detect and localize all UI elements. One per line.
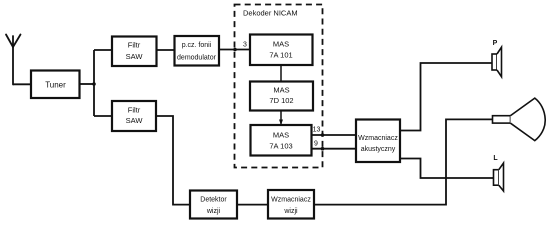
detector box Detektor wizji bbox=[190, 191, 237, 219]
svg-text:9: 9 bbox=[314, 141, 318, 148]
svg-text:3: 3 bbox=[243, 42, 247, 49]
wire Tuner to trunk bbox=[80, 83, 95, 85]
svg-text:13: 13 bbox=[313, 127, 321, 134]
wire antenna to Tuner bbox=[13, 83, 31, 85]
demodulator box p.cz. fonii bbox=[175, 36, 220, 66]
CRT kineskop bbox=[493, 98, 546, 141]
wire amplifier to speaker L bbox=[400, 159, 494, 179]
junction dot D bbox=[321, 147, 325, 151]
IC U1 MAS 7A 101 bbox=[250, 35, 313, 66]
svg-text:Detektor: Detektor bbox=[200, 197, 227, 204]
svg-text:Filtr: Filtr bbox=[128, 105, 141, 114]
speaker P bbox=[492, 47, 502, 76]
svg-text:7A 101: 7A 101 bbox=[269, 51, 292, 60]
svg-text:demodulator: demodulator bbox=[177, 54, 217, 61]
antenna bbox=[6, 35, 21, 85]
wire trunk vertical bbox=[93, 50, 95, 116]
svg-text:L: L bbox=[493, 155, 498, 162]
svg-text:akustyczny: akustyczny bbox=[361, 146, 396, 153]
amplifier box Wzmacniacz akustyczny bbox=[356, 120, 400, 163]
wire U1 to U2 bbox=[280, 65, 282, 82]
wire amplifier to speaker P bbox=[400, 63, 492, 131]
svg-text:SAW: SAW bbox=[126, 52, 144, 61]
svg-text:Tuner: Tuner bbox=[45, 81, 66, 90]
svg-text:wizji: wizji bbox=[206, 208, 221, 215]
svg-text:MAS: MAS bbox=[273, 85, 289, 94]
tuner box bbox=[31, 71, 80, 99]
wire U3 pin 9 to amplifier bbox=[312, 148, 357, 150]
svg-text:p.cz. fonii: p.cz. fonii bbox=[182, 42, 212, 49]
svg-text:Dekoder NICAM: Dekoder NICAM bbox=[243, 9, 298, 18]
wire U3 pin 13 to amplifier bbox=[312, 134, 357, 136]
junction dot A bbox=[92, 82, 96, 86]
wire Detektor wizji to Wzmacniacz wizji bbox=[237, 204, 268, 206]
svg-text:Wzmacniacz: Wzmacniacz bbox=[271, 197, 311, 204]
junction dot B bbox=[233, 48, 237, 52]
wire Wzmacniacz wizji to CRT bbox=[314, 119, 493, 204]
filter box Filtr SAW top bbox=[112, 37, 157, 67]
svg-text:MAS: MAS bbox=[273, 131, 289, 140]
dashed box Dekoder NICAM bbox=[235, 5, 323, 168]
wire demodulator to MAS 7A 101 pin 3 bbox=[219, 49, 250, 51]
wire U2 to U3 with arrow bbox=[279, 111, 283, 126]
svg-text:7A 103: 7A 103 bbox=[269, 141, 292, 150]
svg-text:P: P bbox=[493, 40, 498, 47]
IC U3 MAS 7A 103 bbox=[251, 125, 312, 156]
speaker L bbox=[494, 163, 504, 191]
amplifier box Wzmacniacz wizji bbox=[268, 190, 314, 219]
svg-text:Wzmacniacz: Wzmacniacz bbox=[358, 135, 398, 142]
wire trunk to Filtr SAW top bbox=[94, 49, 112, 51]
wire Filtr SAW bottom input bbox=[94, 115, 112, 117]
IC U2 MAS 7D 102 bbox=[250, 82, 313, 111]
svg-text:SAW: SAW bbox=[126, 116, 144, 125]
svg-text:7D 102: 7D 102 bbox=[269, 96, 293, 105]
filter box Filtr SAW bottom bbox=[112, 101, 156, 131]
svg-text:wizji: wizji bbox=[283, 208, 298, 215]
wire Filtr SAW top to demodulator bbox=[157, 49, 175, 51]
svg-text:MAS: MAS bbox=[273, 40, 289, 49]
svg-text:Filtr: Filtr bbox=[128, 40, 141, 49]
junction dot C bbox=[321, 133, 325, 137]
wire Filtr SAW bottom to Detektor wizji bbox=[156, 116, 190, 205]
